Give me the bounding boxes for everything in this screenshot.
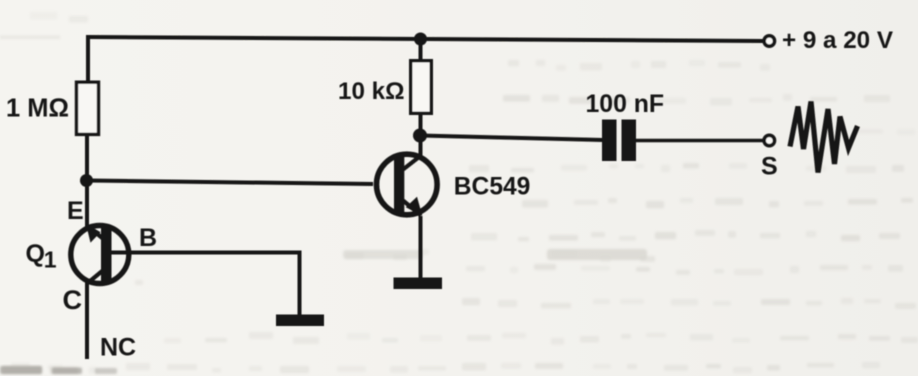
node junction dot on rail above 10k: [414, 33, 427, 46]
ground under Q1 base: [276, 315, 324, 327]
wire collector node to capacitor: [420, 136, 603, 141]
wire 10k bottom to collector node: [419, 115, 423, 158]
wire top supply rail: [88, 37, 763, 41]
label C: [63, 285, 83, 315]
svg-text:B: B: [139, 224, 157, 252]
label NC: [100, 334, 136, 362]
noise waveform zigzag at output: [790, 102, 858, 173]
svg-text:C: C: [63, 285, 83, 315]
wire Q1 base to ground corner: [111, 253, 300, 317]
transistor BC549 base bar: [394, 157, 404, 212]
capacitor 100 nF plate 1: [602, 120, 617, 162]
capacitor 100 nF plate 2: [622, 120, 637, 162]
label S: [761, 153, 778, 181]
wire BC549 emitter to ground: [419, 216, 423, 279]
transistor BC549 emitter diagonal with arrow: [403, 197, 422, 216]
svg-text:NC: NC: [100, 334, 136, 362]
resistor 10 kOhm body: [411, 61, 432, 114]
transistor Q1 circle: [71, 226, 129, 284]
transistor Q1 emitter diagonal with arrow: [86, 223, 104, 242]
label 1 MOhm: [6, 95, 69, 123]
transistor BC549 circle: [377, 154, 438, 215]
label 100 nF: [586, 91, 665, 118]
resistor 1 MOhm body: [77, 82, 99, 134]
wire capacitor to S terminal: [636, 139, 763, 143]
wire 1 MOhm bottom to Q1 emitter entry: [85, 136, 89, 228]
svg-text:1 MΩ: 1 MΩ: [6, 95, 69, 123]
wire Q1 collector down to NC: [85, 281, 89, 359]
transistor Q1 collector diagonal: [87, 270, 105, 285]
node junction dot at E wire: [80, 174, 93, 187]
label E: [67, 197, 84, 225]
label BC549: [454, 173, 531, 200]
svg-text:10 kΩ: 10 kΩ: [338, 78, 404, 105]
ground under BC549: [394, 278, 443, 290]
node junction dot collector node: [413, 129, 427, 143]
terminal +9 a 20 V open circle: [764, 36, 774, 46]
label B: [139, 224, 157, 252]
svg-text:100 nF: 100 nF: [586, 91, 665, 118]
label +9 a 20 V: [782, 27, 893, 54]
label Q1: [26, 240, 57, 273]
svg-text:+ 9 a 20 V: + 9 a 20 V: [782, 27, 893, 54]
transistor Q1 base bar: [101, 226, 112, 282]
transistor BC549 collector diagonal: [403, 156, 421, 170]
terminal S open circle: [764, 135, 774, 145]
wire rail to 10k resistor: [419, 39, 423, 60]
label 10 kOhm: [338, 78, 404, 105]
svg-text:S: S: [761, 153, 778, 181]
wire junction to BC549 base: [87, 181, 374, 185]
svg-text:E: E: [67, 197, 84, 225]
svg-text:BC549: BC549: [454, 173, 531, 200]
wire left branch top (rail corner to 1 M ohm resistor): [86, 35, 90, 81]
